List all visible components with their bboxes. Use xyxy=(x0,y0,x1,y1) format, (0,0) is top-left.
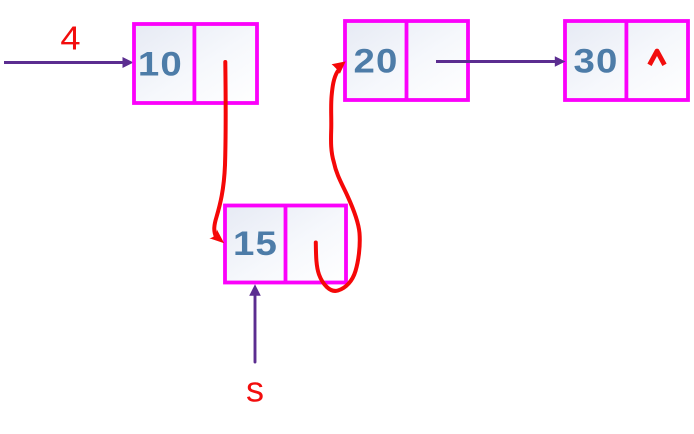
head pointer arrow (purple) into node 10 xyxy=(4,57,134,68)
svg-text:10: 10 xyxy=(138,45,183,83)
arrow node 20 -> node 30 (purple) xyxy=(436,56,566,67)
svg-text:15: 15 xyxy=(233,224,278,262)
node 10 box xyxy=(134,24,257,103)
label 20 (data of node 20) xyxy=(354,41,399,79)
label 15 (data of node 15) xyxy=(233,224,278,262)
node 15 box xyxy=(225,206,346,283)
label 30 (data of node 30) xyxy=(574,41,619,79)
red pointer curve: node 10 next -> node 15 xyxy=(209,62,225,243)
node 30 box xyxy=(565,21,688,100)
svg-text:20: 20 xyxy=(354,41,399,79)
label 4 (head index) xyxy=(60,21,80,57)
svg-text:s: s xyxy=(246,369,264,410)
null marker ^ in node 30 pointer cell xyxy=(650,51,665,65)
pointer s arrow (purple) up into node 15 xyxy=(249,284,261,362)
label 10 (data of node 10) xyxy=(138,45,183,83)
node 20 box xyxy=(345,21,468,100)
svg-text:4: 4 xyxy=(60,21,80,57)
svg-text:30: 30 xyxy=(574,41,619,79)
red pointer curve: node 15 next -> node 20 (loop) xyxy=(316,61,360,291)
